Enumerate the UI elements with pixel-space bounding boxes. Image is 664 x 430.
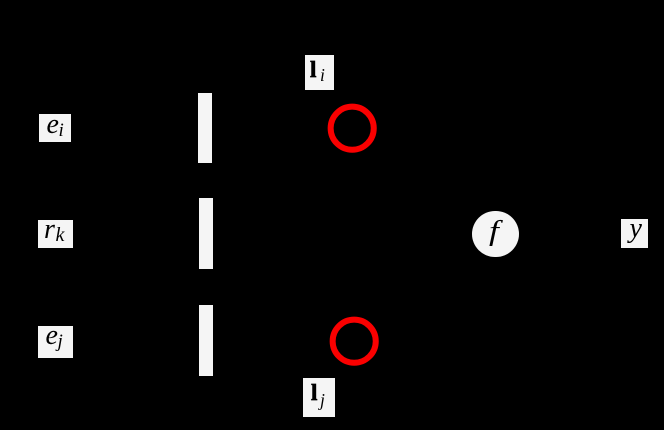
embedding bar 2 (middle) (199, 198, 213, 269)
relation label r_k (38, 220, 73, 248)
score function circle f (472, 211, 518, 257)
entity label e_i (39, 114, 71, 142)
entity label e_j (38, 326, 73, 358)
lookup label l_i (305, 55, 334, 90)
red ring top (325, 101, 380, 156)
embedding bar 1 (top) (198, 93, 212, 164)
lookup label l_j (303, 378, 335, 417)
red ring bottom (327, 314, 382, 369)
embedding bar 3 (bottom) (199, 305, 213, 376)
output label y (621, 219, 648, 248)
